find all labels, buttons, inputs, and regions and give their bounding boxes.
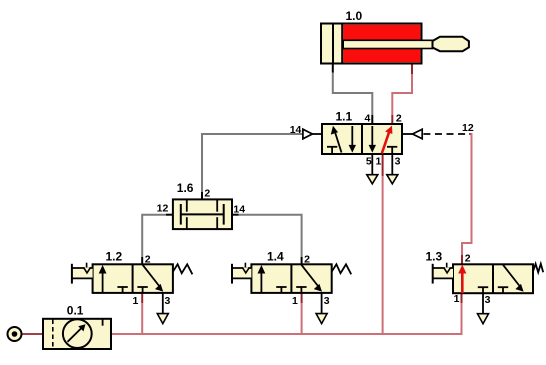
valve 1.2 right box: blocked port 1 seat (137, 287, 147, 293)
pressure line valve 1.3 port 2 to pilot 12 of valve 1.1 (462, 134, 472, 264)
valve 1.1 right box: red arrow 1 to 2 (pressurized) (382, 126, 393, 154)
valve 1.6 seats (187, 199, 217, 229)
valve 1.3 exhaust port 3 silencer (478, 293, 489, 324)
svg-text:0.1: 0.1 (67, 304, 84, 318)
wire from cylinder cap port to valve 1.1 port 4 (333, 64, 373, 125)
valve 1.6 two-pressure valve body (173, 199, 232, 229)
valve 1.1 right pilot 12 (402, 129, 422, 139)
svg-text:1.2: 1.2 (106, 250, 123, 264)
svg-text:14: 14 (233, 203, 245, 215)
svg-text:1.6: 1.6 (177, 181, 194, 195)
valve 1.3 compressed return spring (533, 264, 543, 273)
svg-text:3: 3 (485, 294, 491, 306)
valve 1.4 left box: blocked port 3 seat (276, 287, 286, 293)
svg-text:1.1: 1.1 (336, 109, 353, 123)
valve 1.4 right box: blocked port 1 seat (296, 287, 306, 293)
valve 1.2 right box: arrow 2 to 3 (143, 265, 164, 292)
dashed pilot control line 12 (423, 133, 470, 135)
valve 1.1 right box: arrow 4 to 5 (down) (369, 126, 376, 153)
valve 1.1 exhaust port 3 silencer (387, 154, 398, 184)
supply line from compressed air source to service unit (23, 333, 44, 335)
svg-text:4: 4 (365, 113, 371, 125)
valve 1.2 exhaust port 3 silencer (157, 293, 168, 324)
wire from cylinder rod port to valve 1.1 port 2 (392, 64, 412, 125)
wire from valve 1.6 port 14 to valve 1.4 port 2 (232, 215, 302, 265)
svg-text:1: 1 (292, 295, 298, 307)
valve 1.3 right box: blocked port 1 seat (498, 287, 508, 293)
valve 1.2 left box: blocked port 3 seat (117, 287, 127, 293)
valve 1.1 right box: blocked port 3 seat (387, 147, 397, 154)
pressure line valve 1.2 port 1 to supply bus (141, 293, 143, 334)
valve 1.2 return spring (173, 264, 193, 274)
valve 1.6 middle bar (181, 213, 224, 215)
svg-text:12: 12 (462, 122, 474, 134)
svg-text:3: 3 (165, 295, 171, 307)
wire from valve 1.6 port 2 to valve 1.1 pilot 14 (202, 134, 302, 199)
svg-text:2: 2 (204, 188, 210, 200)
svg-text:1.0: 1.0 (346, 9, 363, 23)
compressed air source 0.1 (8, 327, 22, 341)
valve 1.1 left box: arrow 2 to 3 (down) (349, 126, 356, 153)
svg-text:14: 14 (290, 124, 302, 136)
cylinder 1.0 (321, 24, 469, 64)
valve 1.4 body (3/2-way valve) (251, 264, 331, 293)
valve 1.6 right piston bar (223, 204, 225, 225)
valve 1.3 left box: blocked port 3 seat (478, 287, 488, 293)
supply bus from air service unit to valve 1.3 port 1 (111, 293, 462, 334)
valve 1.4 exhaust port 3 silencer (316, 293, 327, 324)
svg-text:1: 1 (376, 156, 382, 168)
svg-text:1.4: 1.4 (267, 250, 284, 264)
valve 1.3 pushbutton actuator with detent (433, 263, 453, 284)
svg-text:2: 2 (145, 254, 151, 266)
svg-text:5: 5 (366, 156, 372, 168)
valve 1.1 left pilot 14 (303, 129, 322, 139)
svg-text:1: 1 (133, 295, 139, 307)
valve 1.2 pushbutton actuator with detent (72, 263, 93, 284)
valve 1.1 exhaust port 5 silencer (367, 154, 378, 184)
valve 1.4 pushbutton actuator with detent (232, 263, 251, 284)
air service unit 0.1 (43, 319, 111, 349)
svg-text:2: 2 (465, 252, 471, 264)
valve 1.2 body (3/2-way valve) (93, 264, 173, 293)
valve 1.4 left box: arrow 1 to 2 (up) (258, 265, 266, 293)
svg-text:1.3: 1.3 (426, 250, 443, 264)
wire from valve 1.6 port 12 to valve 1.2 port 2 (142, 215, 173, 265)
valve 1.4 return spring (332, 264, 352, 274)
valve 1.3 body (3/2-way valve, actuated) (453, 264, 533, 293)
valve 1.2 left box: arrow 1 to 2 (up) (99, 265, 107, 293)
svg-text:12: 12 (157, 203, 169, 215)
svg-text:2: 2 (304, 254, 310, 266)
valve 1.6 left piston bar (180, 204, 182, 225)
svg-text:3: 3 (324, 295, 330, 307)
valve 1.4 right box: arrow 2 to 3 (301, 265, 322, 292)
valve 1.1 left box: arrow 1 to 4 (331, 126, 342, 153)
valve 1.1 left box: blocked port 5 seat (327, 147, 337, 154)
svg-text:2: 2 (396, 113, 402, 125)
svg-text:1: 1 (454, 293, 460, 305)
pressure line valve 1.4 port 1 to supply bus (301, 293, 303, 334)
pressure line valve 1.1 port 1 to supply bus (382, 154, 384, 334)
svg-text:3: 3 (395, 156, 401, 168)
valve 1.3 right box: arrow 2 to 3 (503, 265, 524, 292)
valve 1.1 body (5/2-way valve) (322, 124, 402, 154)
valve 1.3 left box: red arrow 1 to 2 (pressurized, up) (458, 265, 466, 294)
